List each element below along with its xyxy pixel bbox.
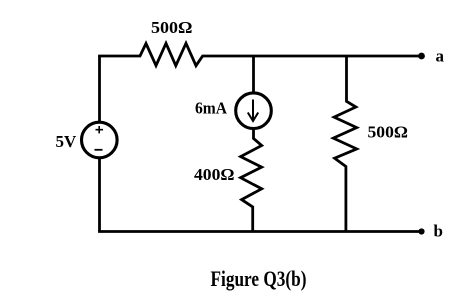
svg-text:b: b (434, 222, 443, 241)
svg-text:500Ω: 500Ω (151, 18, 193, 37)
svg-text:Figure Q3(b): Figure Q3(b) (211, 266, 307, 291)
svg-text:5V: 5V (56, 132, 78, 151)
svg-text:400Ω: 400Ω (194, 165, 235, 184)
svg-text:a: a (436, 47, 445, 66)
svg-text:500Ω: 500Ω (368, 122, 409, 141)
svg-text:6mA: 6mA (195, 99, 228, 118)
